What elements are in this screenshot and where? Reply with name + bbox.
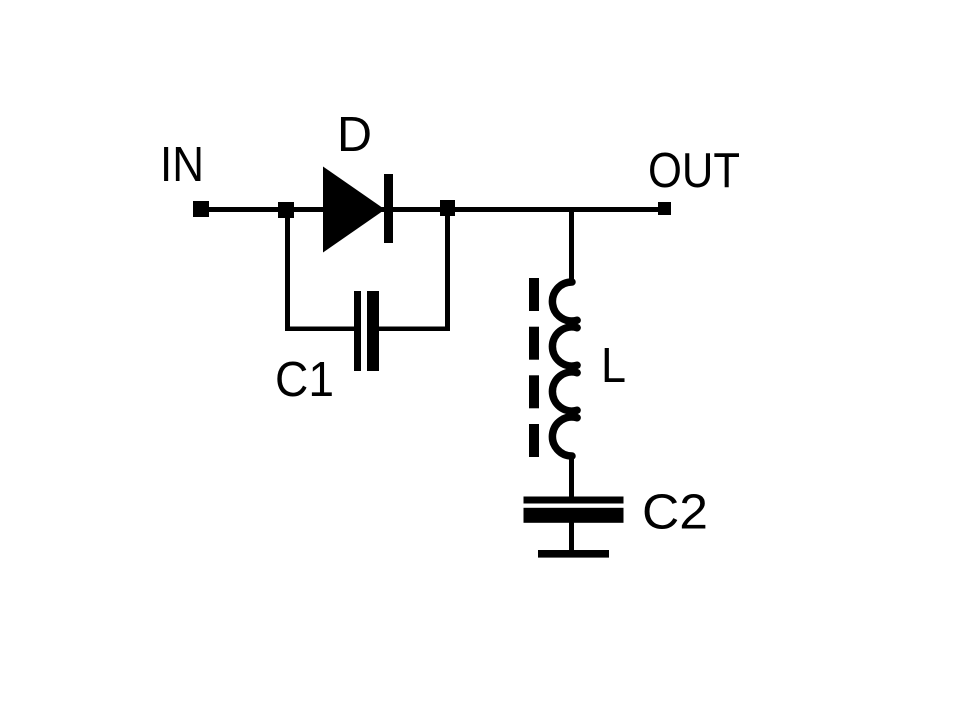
capacitor C2 top plate (524, 497, 624, 504)
inductor L coil turn 3 (552, 372, 577, 411)
node IN terminal (193, 201, 209, 217)
inductor L core dash 3 (529, 375, 539, 408)
svg-text:IN: IN (160, 137, 204, 192)
wire bottom right horizontal from C1 (379, 327, 450, 332)
inductor L core dash 1 (529, 278, 539, 311)
wire C2 to ground (569, 523, 574, 551)
inductor L core dash 2 (529, 327, 539, 360)
wire coil to C2 (569, 459, 574, 497)
wire right vertical branch from C1 (445, 216, 450, 331)
svg-text:C1: C1 (275, 352, 334, 407)
inductor L core dash 4 (529, 424, 539, 457)
capacitor C1 left plate (354, 291, 361, 371)
ground (538, 550, 609, 558)
capacitor C2 bottom plate (524, 508, 624, 523)
wire vertical drop to inductor (569, 211, 574, 279)
node junction left of diode (278, 202, 294, 218)
wire bottom left horizontal to C1 (285, 327, 354, 332)
inductor L coil turn 1 (552, 282, 577, 321)
svg-text:C2: C2 (642, 485, 708, 540)
diode D anode triangle (323, 167, 385, 253)
inductor L coil turn 2 (552, 327, 577, 366)
diode D cathode bar (384, 174, 393, 243)
capacitor C1 right plate (367, 291, 379, 371)
inductor L coil turn 4 (552, 417, 577, 456)
wire left vertical branch to C1 (285, 218, 290, 331)
node junction right of diode (440, 200, 455, 216)
svg-text:L: L (601, 338, 626, 393)
svg-text:D: D (337, 107, 372, 162)
wire main horizontal IN to OUT (207, 207, 659, 212)
node OUT terminal (658, 202, 671, 215)
svg-text:OUT: OUT (648, 143, 740, 198)
